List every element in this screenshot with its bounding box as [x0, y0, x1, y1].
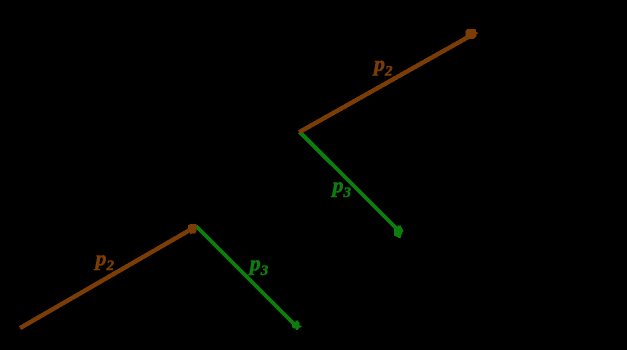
vector p2 (upper) arrowhead	[466, 29, 478, 39]
vector p3 (lower) wire	[196, 226, 297, 327]
vector p2 (lower) arrowhead	[188, 224, 197, 235]
vector p3 (lower) arrowhead	[292, 320, 302, 330]
vector p2 (upper) wire	[299, 34, 474, 133]
vector p3 (upper) wire	[300, 132, 399, 231]
vector p2 (lower) wire	[20, 228, 194, 328]
vector p3 (upper) arrowhead	[394, 226, 404, 238]
